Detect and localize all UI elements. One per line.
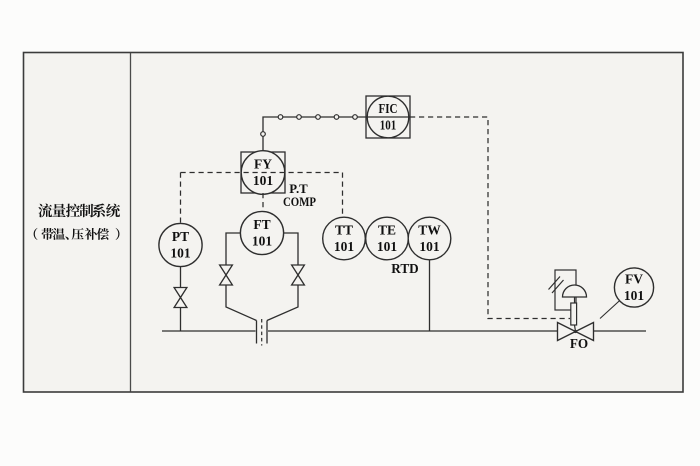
svg-text:101: 101: [377, 239, 398, 254]
svg-text:TE: TE: [378, 223, 396, 238]
svg-text:101: 101: [253, 173, 274, 188]
svg-text:PT: PT: [172, 229, 189, 244]
svg-text:101: 101: [380, 118, 397, 133]
svg-text:101: 101: [624, 288, 645, 303]
svg-text:101: 101: [252, 234, 273, 249]
svg-text:FIC: FIC: [379, 101, 398, 116]
svg-text:COMP: COMP: [283, 195, 316, 209]
svg-text:RTD: RTD: [391, 261, 418, 276]
svg-text:101: 101: [170, 246, 191, 261]
svg-text:FV: FV: [625, 272, 643, 287]
svg-text:TW: TW: [418, 223, 441, 238]
svg-text:FO: FO: [570, 336, 588, 351]
svg-text:FT: FT: [253, 217, 270, 232]
svg-text:FY: FY: [254, 157, 272, 172]
svg-text:TT: TT: [335, 223, 353, 238]
svg-text:101: 101: [419, 239, 440, 254]
svg-text:101: 101: [334, 239, 355, 254]
